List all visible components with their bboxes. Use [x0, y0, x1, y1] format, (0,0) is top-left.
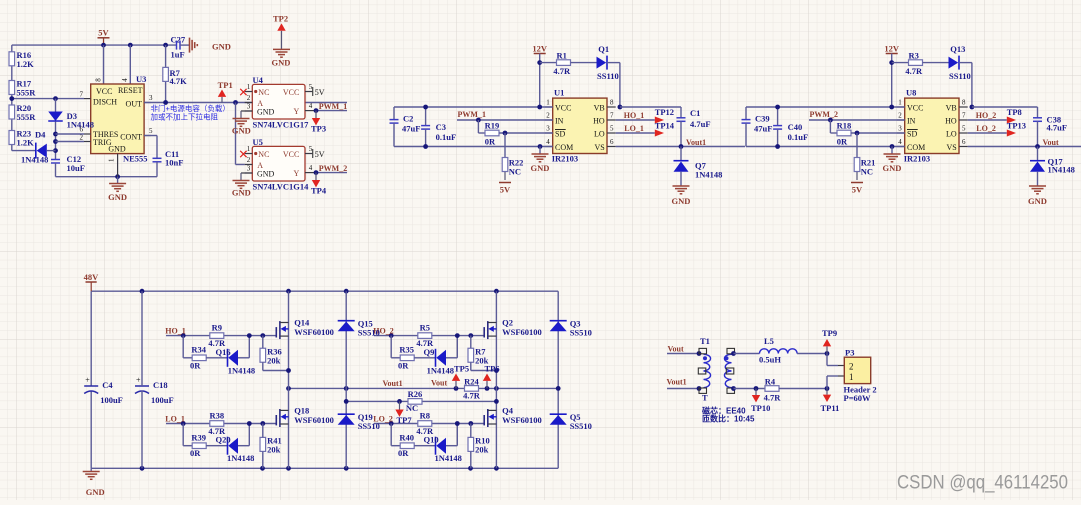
svg-text:1N4148: 1N4148 — [67, 120, 94, 130]
svg-text:PWM_2: PWM_2 — [319, 164, 347, 173]
svg-text:100uF: 100uF — [100, 395, 123, 405]
svg-text:D4: D4 — [35, 130, 46, 140]
svg-text:1N4148: 1N4148 — [228, 365, 255, 375]
svg-text:Vout: Vout — [431, 379, 447, 388]
svg-text:8: 8 — [95, 78, 103, 82]
svg-text:5V: 5V — [315, 150, 325, 159]
svg-text:0R: 0R — [837, 137, 848, 147]
svg-text:Vout1: Vout1 — [667, 378, 687, 387]
svg-text:VS: VS — [594, 143, 604, 152]
svg-text:48V: 48V — [84, 272, 100, 282]
svg-text:2: 2 — [849, 362, 854, 372]
svg-text:Y: Y — [294, 169, 300, 178]
svg-text:4: 4 — [546, 138, 550, 146]
svg-text:0R: 0R — [398, 448, 409, 458]
svg-text:LO: LO — [946, 129, 957, 138]
svg-text:CSDN @qq_46114250: CSDN @qq_46114250 — [897, 473, 1068, 494]
svg-text:10nF: 10nF — [165, 158, 183, 168]
svg-text:A: A — [257, 99, 263, 108]
svg-text:VB: VB — [594, 103, 605, 112]
svg-text:VCC: VCC — [907, 103, 923, 112]
svg-text:1: 1 — [898, 99, 902, 107]
svg-text:R40: R40 — [399, 433, 414, 443]
svg-text:IR2103: IR2103 — [904, 153, 930, 163]
svg-text:3: 3 — [149, 94, 153, 102]
svg-text:Q9: Q9 — [424, 347, 435, 357]
svg-text:RESET: RESET — [118, 86, 143, 95]
svg-text:R38: R38 — [209, 410, 224, 420]
svg-text:COM: COM — [555, 143, 573, 152]
svg-text:0R: 0R — [485, 137, 496, 147]
svg-text:3: 3 — [247, 165, 251, 173]
svg-text:C39: C39 — [755, 114, 770, 124]
svg-text:TP7: TP7 — [397, 415, 413, 425]
svg-text:R9: R9 — [212, 322, 222, 332]
svg-text:1N4148: 1N4148 — [695, 170, 722, 180]
svg-text:NC: NC — [258, 88, 269, 97]
svg-text:1: 1 — [247, 83, 251, 91]
svg-text:C3: C3 — [436, 122, 446, 132]
svg-text:2: 2 — [247, 94, 251, 102]
svg-text:COM: COM — [907, 143, 925, 152]
svg-text:TP12: TP12 — [655, 107, 674, 117]
svg-text:1N4148: 1N4148 — [427, 365, 454, 375]
svg-text:1: 1 — [247, 145, 251, 153]
svg-text:IN: IN — [555, 116, 564, 125]
svg-text:R4: R4 — [765, 377, 776, 387]
svg-text:4.7R: 4.7R — [463, 390, 481, 400]
svg-text:5V: 5V — [98, 28, 109, 38]
svg-text:WSF60100: WSF60100 — [502, 415, 542, 425]
svg-text:Q20: Q20 — [216, 435, 231, 445]
svg-text:1N4148: 1N4148 — [1048, 165, 1075, 175]
svg-text:1.2K: 1.2K — [17, 59, 35, 69]
svg-text:SN74LVC1G14: SN74LVC1G14 — [253, 182, 310, 192]
svg-text:C4: C4 — [102, 380, 113, 390]
svg-text:LO: LO — [594, 129, 605, 138]
svg-text:Q18: Q18 — [294, 405, 309, 415]
svg-text:TP9: TP9 — [822, 328, 837, 338]
svg-text:47uF: 47uF — [754, 124, 772, 134]
svg-text:Q13: Q13 — [950, 44, 965, 54]
svg-text:4: 4 — [898, 138, 902, 146]
svg-text:匝数比：10:45: 匝数比：10:45 — [702, 414, 755, 424]
svg-text:PWM_2: PWM_2 — [810, 110, 838, 119]
svg-text:12V: 12V — [532, 43, 548, 53]
svg-text:HO_2: HO_2 — [976, 111, 996, 120]
svg-text:SS510: SS510 — [570, 328, 592, 338]
svg-text:SS510: SS510 — [570, 421, 592, 431]
svg-text:C18: C18 — [153, 380, 168, 390]
svg-text:1N4148: 1N4148 — [435, 453, 462, 463]
svg-text:4.7uF: 4.7uF — [690, 119, 711, 129]
svg-text:TP11: TP11 — [821, 403, 840, 413]
svg-text:2: 2 — [247, 156, 251, 164]
svg-text:3: 3 — [546, 125, 550, 133]
svg-text:SN74LVC1G17: SN74LVC1G17 — [253, 120, 310, 130]
svg-text:12V: 12V — [884, 43, 900, 53]
svg-text:Y: Y — [294, 107, 300, 116]
svg-text:R35: R35 — [399, 345, 414, 355]
svg-text:WSF60100: WSF60100 — [294, 415, 334, 425]
svg-text:100uF: 100uF — [151, 395, 174, 405]
svg-text:TP6: TP6 — [485, 364, 500, 374]
svg-text:8: 8 — [610, 99, 614, 107]
svg-text:NC: NC — [258, 150, 269, 159]
svg-text:1N4148: 1N4148 — [21, 155, 48, 165]
svg-text:4: 4 — [121, 78, 129, 82]
svg-text:NC: NC — [406, 403, 418, 413]
svg-text:GND: GND — [883, 163, 902, 173]
svg-text:IN: IN — [907, 116, 916, 125]
svg-text:C2: C2 — [403, 114, 413, 124]
svg-text:VB: VB — [946, 103, 957, 112]
svg-text:SS510: SS510 — [358, 421, 380, 431]
svg-text:3: 3 — [247, 103, 251, 111]
svg-text:VCC: VCC — [283, 88, 299, 97]
svg-text:GND: GND — [1028, 196, 1047, 206]
svg-text:PWM_1: PWM_1 — [458, 110, 486, 119]
svg-text:4.7uF: 4.7uF — [1047, 123, 1068, 133]
svg-text:HO: HO — [945, 116, 957, 125]
svg-text:C27: C27 — [171, 34, 186, 44]
svg-text:R19: R19 — [485, 121, 500, 131]
svg-text:4.7R: 4.7R — [905, 66, 923, 76]
svg-text:Q16: Q16 — [216, 347, 231, 357]
svg-text:1uF: 1uF — [171, 50, 185, 60]
svg-text:8: 8 — [962, 99, 966, 107]
svg-text:6: 6 — [610, 138, 614, 146]
svg-text:TP10: TP10 — [751, 403, 770, 413]
svg-text:4.7R: 4.7R — [553, 66, 571, 76]
svg-text:3: 3 — [898, 125, 902, 133]
svg-text:TP13: TP13 — [1007, 120, 1026, 130]
svg-text:Q10: Q10 — [424, 435, 439, 445]
svg-text:GND: GND — [232, 126, 251, 136]
svg-text:DISCH: DISCH — [93, 98, 117, 107]
svg-text:SD: SD — [907, 129, 917, 138]
svg-text:R26: R26 — [408, 389, 423, 399]
svg-text:Vout: Vout — [668, 345, 684, 354]
svg-text:TP2: TP2 — [273, 14, 288, 24]
svg-text:555R: 555R — [17, 112, 37, 122]
svg-text:Vout: Vout — [1043, 138, 1059, 147]
svg-text:SS510: SS510 — [358, 328, 380, 338]
svg-text:R34: R34 — [191, 345, 206, 355]
svg-text:A: A — [257, 161, 263, 170]
svg-text:CONT: CONT — [120, 133, 142, 142]
svg-text:P=60W: P=60W — [844, 393, 872, 403]
svg-text:GND: GND — [232, 188, 251, 198]
svg-text:GND: GND — [108, 145, 126, 154]
svg-text:5V: 5V — [315, 88, 325, 97]
svg-text:U5: U5 — [253, 137, 263, 147]
svg-text:VCC: VCC — [96, 87, 112, 96]
svg-text:HO_1: HO_1 — [165, 327, 185, 336]
svg-text:47uF: 47uF — [402, 124, 420, 134]
svg-text:VCC: VCC — [283, 150, 299, 159]
svg-text:加或不加上下拉电阻: 加或不加上下拉电阻 — [151, 112, 219, 122]
svg-text:SS110: SS110 — [597, 71, 619, 81]
svg-text:0.1uF: 0.1uF — [436, 132, 457, 142]
svg-text:1N4148: 1N4148 — [227, 453, 254, 463]
svg-text:IR2103: IR2103 — [552, 153, 578, 163]
svg-text:T: T — [702, 393, 708, 403]
svg-text:C40: C40 — [788, 122, 803, 132]
svg-text:7: 7 — [610, 112, 614, 120]
svg-text:SS110: SS110 — [949, 71, 971, 81]
svg-text:1: 1 — [108, 158, 116, 162]
svg-text:20k: 20k — [475, 445, 489, 455]
svg-text:NC: NC — [509, 167, 521, 177]
svg-text:5: 5 — [962, 125, 966, 133]
svg-text:0R: 0R — [398, 360, 409, 370]
svg-text:非门+电源电容（负载）: 非门+电源电容（负载） — [151, 103, 230, 113]
svg-text:1.2K: 1.2K — [17, 138, 35, 148]
svg-text:Vout1: Vout1 — [383, 379, 403, 388]
svg-text:4: 4 — [309, 102, 313, 110]
svg-text:TP14: TP14 — [655, 120, 675, 130]
svg-text:R39: R39 — [191, 433, 206, 443]
svg-text:GND: GND — [672, 196, 691, 206]
svg-text:TP3: TP3 — [311, 124, 326, 134]
svg-text:5V: 5V — [500, 185, 511, 195]
svg-text:R5: R5 — [420, 322, 430, 332]
svg-text:555R: 555R — [17, 88, 37, 98]
svg-text:GND: GND — [531, 163, 550, 173]
svg-text:VS: VS — [946, 143, 956, 152]
svg-text:Q1: Q1 — [598, 44, 609, 54]
svg-text:LO_1: LO_1 — [165, 415, 185, 424]
svg-text:+: + — [136, 376, 141, 385]
svg-text:GND: GND — [257, 108, 275, 117]
svg-text:1: 1 — [546, 99, 550, 107]
svg-text:4: 4 — [309, 164, 313, 172]
svg-text:Q4: Q4 — [502, 405, 514, 415]
svg-text:WSF60100: WSF60100 — [294, 327, 334, 337]
svg-text:1: 1 — [849, 372, 854, 382]
svg-text:TP8: TP8 — [1007, 107, 1022, 117]
svg-text:TP4: TP4 — [311, 186, 327, 196]
svg-text:TP5: TP5 — [454, 364, 469, 374]
svg-text:R18: R18 — [837, 121, 852, 131]
svg-text:+: + — [85, 376, 90, 385]
svg-text:LO_2: LO_2 — [976, 124, 996, 133]
svg-text:4.7R: 4.7R — [764, 393, 782, 403]
svg-text:2: 2 — [898, 112, 902, 120]
svg-text:R24: R24 — [464, 376, 479, 386]
svg-text:LO_1: LO_1 — [624, 124, 644, 133]
svg-text:GND: GND — [108, 192, 127, 202]
svg-text:2: 2 — [546, 112, 550, 120]
svg-text:P3: P3 — [845, 348, 854, 358]
svg-text:WSF60100: WSF60100 — [502, 327, 542, 337]
svg-text:TP1: TP1 — [218, 80, 233, 90]
svg-text:GND: GND — [86, 487, 105, 497]
svg-text:U4: U4 — [253, 75, 264, 85]
svg-text:Q2: Q2 — [502, 317, 513, 327]
svg-text:R3: R3 — [909, 50, 919, 60]
svg-text:GND: GND — [257, 170, 275, 179]
svg-text:U1: U1 — [554, 88, 564, 98]
svg-text:Q14: Q14 — [294, 317, 310, 327]
svg-text:20k: 20k — [267, 445, 281, 455]
svg-text:GND: GND — [272, 58, 291, 68]
svg-text:NE555: NE555 — [123, 154, 148, 164]
svg-text:NC: NC — [861, 167, 873, 177]
svg-text:PWM_1: PWM_1 — [319, 102, 347, 111]
svg-text:0.1uF: 0.1uF — [788, 132, 809, 142]
svg-text:4.7K: 4.7K — [170, 76, 188, 86]
svg-text:U3: U3 — [136, 74, 146, 84]
svg-text:5: 5 — [610, 125, 614, 133]
svg-text:L5: L5 — [764, 336, 774, 346]
svg-text:U8: U8 — [906, 88, 916, 98]
svg-text:OUT: OUT — [126, 100, 143, 109]
svg-text:T1: T1 — [700, 336, 710, 346]
svg-text:R1: R1 — [557, 50, 567, 60]
svg-text:GND: GND — [212, 42, 231, 52]
svg-text:HO_1: HO_1 — [624, 111, 644, 120]
svg-text:HO: HO — [593, 116, 605, 125]
svg-text:6: 6 — [962, 138, 966, 146]
svg-text:R8: R8 — [420, 410, 430, 420]
svg-text:0.5uH: 0.5uH — [759, 355, 781, 365]
svg-text:7: 7 — [962, 112, 966, 120]
svg-text:VCC: VCC — [555, 103, 571, 112]
svg-text:20k: 20k — [267, 356, 281, 366]
svg-text:SD: SD — [555, 129, 565, 138]
svg-text:7: 7 — [80, 91, 84, 99]
svg-text:0R: 0R — [190, 448, 201, 458]
svg-text:0R: 0R — [190, 360, 201, 370]
svg-text:5: 5 — [149, 127, 153, 135]
svg-text:C1: C1 — [690, 108, 700, 118]
svg-text:10uF: 10uF — [67, 163, 85, 173]
svg-text:5V: 5V — [852, 185, 863, 195]
svg-text:Vout1: Vout1 — [686, 138, 706, 147]
